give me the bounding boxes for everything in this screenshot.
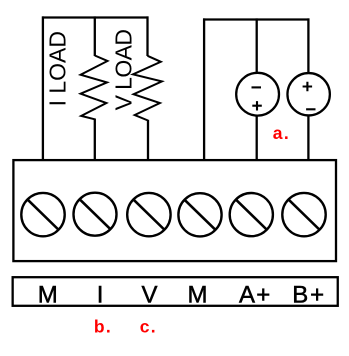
terminal 6 screw: [282, 193, 325, 236]
source B circle: [287, 73, 329, 115]
resistor I LOAD zigzag: [81, 56, 108, 120]
terminal 2 screw: [74, 193, 117, 236]
terminal 1 screw: [21, 193, 64, 236]
source A plus sign: [252, 101, 261, 110]
wire: left bus top line: [42, 16, 148, 18]
wire: middle vertical lower stub: [94, 119, 96, 161]
svg-text:M: M: [38, 281, 58, 308]
svg-text:A+: A+: [239, 281, 272, 308]
terminal 4 screw: [178, 193, 221, 236]
terminal block outline: [13, 160, 336, 261]
source B plus sign: [303, 82, 313, 91]
svg-text:a.: a.: [273, 123, 290, 143]
wire: right bus top line: [203, 18, 310, 20]
label strip outline: [13, 277, 338, 306]
wire: right vertical lower stub: [147, 120, 149, 160]
wire: source A top stub: [256, 18, 258, 73]
terminal 3 screw: [127, 193, 170, 236]
source A minus sign: [252, 86, 262, 88]
wire: right vertical upper stub (V terminal): [146, 16, 148, 56]
wire: source B bottom stub: [307, 115, 309, 160]
svg-text:c.: c.: [140, 317, 157, 337]
svg-text:I LOAD: I LOAD: [45, 31, 71, 106]
svg-text:I: I: [97, 281, 104, 308]
wire: source B top stub: [307, 18, 309, 73]
svg-text:V LOAD: V LOAD: [111, 30, 137, 111]
source A circle: [236, 73, 279, 116]
svg-text:V: V: [141, 281, 157, 308]
wire: middle vertical upper stub (I terminal): [94, 16, 96, 56]
wire: right structure left vertical (M terminal): [203, 18, 205, 160]
terminal 5 screw: [230, 193, 273, 236]
wire: left vertical (M terminal): [42, 16, 44, 160]
svg-text:b.: b.: [94, 317, 112, 337]
resistor V LOAD zigzag: [133, 56, 162, 121]
source B minus sign: [306, 108, 315, 110]
svg-text:M: M: [188, 281, 208, 308]
svg-text:B+: B+: [292, 281, 326, 308]
wire: source A bottom stub: [256, 116, 258, 161]
